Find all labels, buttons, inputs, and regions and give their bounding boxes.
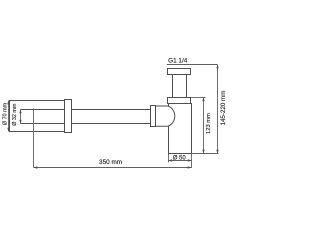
arrowhead Ø32 bottom — [19, 120, 21, 124]
horizontal inlet pipe Ø32 bottom line — [21, 123, 151, 125]
dimension line 123 mm — [203, 98, 205, 154]
leader line from G1 1/4 label — [167, 64, 218, 66]
extension line Ø50 left — [168, 154, 170, 163]
svg-text:Ø 32 mm: Ø 32 mm — [12, 103, 18, 126]
arrowhead 145-220 top — [216, 65, 218, 69]
tailpiece pipe left line — [172, 75, 174, 98]
extension line right shared Ø50 and 350 — [191, 154, 193, 169]
svg-text:123 mm: 123 mm — [206, 113, 212, 134]
svg-text:Ø 70 mm: Ø 70 mm — [2, 102, 8, 125]
svg-text:350 mm: 350 mm — [99, 159, 122, 166]
extension line 350 mm left — [33, 109, 35, 168]
extension line bottom right — [192, 153, 219, 155]
svg-text:145-220 mm: 145-220 mm — [220, 91, 227, 126]
arrowhead Ø70 bottom — [7, 128, 9, 132]
arrowhead Ø50 left — [169, 159, 173, 161]
arrowhead Ø70 top — [7, 101, 9, 105]
svg-text:Ø 50: Ø 50 — [173, 155, 187, 161]
wall tube end ring — [65, 100, 72, 133]
arrowhead 350 right — [188, 166, 192, 168]
tailpiece pipe right line — [186, 75, 188, 98]
dimension line Ø70 — [8, 101, 10, 132]
extension line 123 mm top — [191, 97, 206, 99]
arrowhead Ø50 right — [188, 159, 192, 161]
arrowhead 123 top — [202, 98, 204, 102]
dimension line Ø50 — [169, 160, 192, 162]
dimension line 145-220 mm — [217, 65, 219, 154]
arrowhead Ø32 top — [19, 110, 21, 114]
trap body (bottle) — [169, 104, 192, 154]
inner pipe line inside wall tube top — [21, 109, 65, 111]
inlet compression nut — [151, 106, 156, 127]
arrowhead 350 left — [34, 166, 38, 168]
tailpiece top flange G1 1/4 — [168, 69, 191, 75]
dimension line Ø32 — [20, 110, 22, 124]
arrowhead 145-220 bottom — [216, 150, 218, 154]
horizontal inlet pipe Ø32 top line — [21, 109, 151, 111]
decorative wall tube Ø70 — [10, 101, 65, 132]
inner pipe line inside wall tube bottom — [21, 123, 65, 125]
dimension line 350 mm — [34, 167, 192, 169]
inlet elbow — [155, 106, 175, 126]
arrowhead 123 bottom — [202, 150, 204, 154]
trap slip nut — [168, 98, 191, 104]
svg-text:G1 1/4: G1 1/4 — [168, 57, 188, 64]
